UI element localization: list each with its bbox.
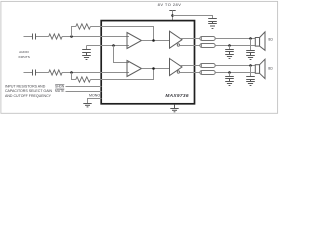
wire top OUT- to speaker [215, 45, 255, 47]
wire top junction to amp input [62, 36, 129, 38]
svg-text:MAX9736: MAX9736 [165, 93, 188, 99]
wire bias cap to amps [87, 45, 130, 47]
capacitor bottom OUT+ filter [246, 66, 255, 82]
node top OUT- filter junction [228, 44, 231, 47]
node bottom feedback junction [152, 67, 155, 70]
svg-text:8Ω: 8Ω [268, 66, 273, 70]
node top feedback junction [152, 39, 155, 42]
resistor bottom feedback [76, 77, 91, 82]
wire top feedback into IC [91, 27, 154, 41]
speaker SPK1 [255, 32, 265, 50]
node VDD junction [171, 14, 174, 17]
ground MONO [83, 104, 91, 107]
node top input junction [70, 35, 73, 38]
capacitor top OUT- filter [225, 46, 234, 55]
wire bottom preamp output [142, 68, 170, 70]
resistor bottom input [49, 70, 62, 75]
wire bottom input lead [24, 72, 33, 74]
op-amp top output stage [170, 31, 183, 48]
wire top OUT+ to speaker [215, 38, 255, 40]
svg-text:MUTE: MUTE [55, 89, 65, 93]
op-amp U1 MAX9736 box [101, 21, 194, 104]
svg-text:MONO: MONO [89, 94, 100, 98]
wire SHDN [66, 86, 102, 88]
wire top input lead [24, 36, 33, 38]
wire top OUT+ [180, 38, 200, 40]
resistor top feedback [76, 24, 91, 29]
svg-text:CAPACITORS SELECT GAIN: CAPACITORS SELECT GAIN [5, 89, 53, 93]
ground top OUT- cap [225, 55, 234, 59]
wire bottom OUT- to speaker [215, 72, 255, 74]
resistor top input [49, 34, 62, 39]
wire bottom OUT+ to speaker [215, 65, 255, 67]
ground IC exposed pad [170, 105, 178, 112]
node bottom OUT- filter junction [228, 71, 231, 74]
op-amp bottom output stage [170, 59, 183, 76]
op-amp top preamp [127, 33, 142, 49]
wire bottom cap to resistor [36, 72, 49, 74]
wire bias to bottom amp [114, 46, 130, 63]
node top OUT+ filter junction [249, 37, 252, 40]
capacitor VDD bypass [208, 19, 217, 24]
inductor top OUT- bead [200, 44, 215, 48]
wire bottom feedback into IC [91, 69, 154, 80]
svg-text:AUDIO: AUDIO [19, 50, 29, 54]
svg-text:AND CUTOFF FREQUENCY: AND CUTOFF FREQUENCY [5, 94, 52, 98]
wire top preamp output [142, 40, 170, 42]
capacitor bias decoupling [82, 46, 91, 56]
ground bottom OUT- cap [225, 82, 234, 86]
node bottom input junction [70, 71, 73, 74]
bubble bottom inverted output [177, 71, 179, 73]
wire bottom junction to amp input [62, 72, 129, 74]
node bottom OUT+ filter junction [249, 64, 252, 67]
wire MUTE [66, 91, 102, 93]
ground bottom OUT+ cap [246, 82, 255, 86]
wire bottom OUT+ [180, 65, 200, 67]
svg-text:8Ω: 8Ω [268, 37, 273, 41]
wire bottom OUT- [180, 72, 201, 74]
svg-text:INPUTS: INPUTS [19, 55, 30, 59]
ground top OUT+ cap [246, 56, 255, 60]
node bias junction [112, 44, 115, 47]
wire top feedback riser [72, 27, 76, 37]
wire VDD down into IC [172, 11, 174, 21]
inductor bottom OUT- bead [200, 71, 215, 75]
svg-text:8V TO 28V: 8V TO 28V [158, 2, 182, 7]
capacitor top OUT+ filter [246, 39, 255, 56]
capacitor bottom input coupling [33, 70, 36, 76]
wire VDD to bypass cap [173, 16, 213, 19]
inductor bottom OUT+ bead [200, 64, 215, 68]
capacitor bottom OUT- filter [225, 73, 234, 82]
wire bottom feedback dropper [72, 73, 76, 80]
supply terminal bar [169, 10, 175, 12]
wire top cap to resistor [36, 36, 49, 38]
ground VDD bypass [208, 24, 217, 29]
op-amp bottom preamp [127, 61, 142, 77]
speaker SPK2 [255, 59, 265, 78]
bubble top inverted output [177, 44, 179, 46]
capacitor top input coupling [33, 34, 36, 40]
svg-text:INPUT RESISTORS AND: INPUT RESISTORS AND [5, 85, 46, 89]
ground bias cap [82, 56, 91, 60]
wire top OUT- [180, 45, 201, 47]
inductor top OUT+ bead [200, 37, 215, 41]
wire MONO to ground [88, 99, 102, 104]
